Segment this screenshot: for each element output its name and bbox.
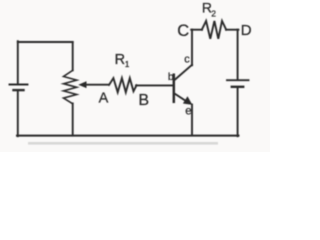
svg-text:b: b [168,71,174,83]
wire: collector vertical [191,30,193,66]
transistor Q1 emitter diagonal [175,94,187,102]
potentiometer zigzag body [64,70,77,104]
wire: R2 to D corner [226,29,238,31]
wire: left rail upper [17,41,19,83]
wire: emitter vertical [191,105,193,136]
wire: left rail lower [17,91,19,136]
svg-text:A: A [99,91,109,107]
wire: collector to R2 [191,29,202,31]
wire: left loop top [18,41,73,43]
wire: right rail upper [237,30,239,80]
battery B2 long plate [227,79,249,81]
resistor R1 zigzag [109,78,137,92]
svg-text:2: 2 [211,8,216,18]
svg-text:1: 1 [125,60,130,69]
svg-text:D: D [241,22,252,39]
wire: right rail lower [237,88,239,137]
potentiometer wiper arrowhead [78,81,86,88]
svg-text:C: C [177,22,189,40]
resistor R2 zigzag [202,21,226,39]
svg-text:c: c [184,54,190,66]
battery B1 long plate [10,84,28,86]
wire: bottom rail [17,135,239,137]
svg-text:R: R [115,52,125,68]
wire: base lead [136,84,173,86]
transistor Q1 emitter arrowhead [183,96,193,105]
wire: wiper horizontal lead [85,84,109,86]
wire: potentiometer bottom lead [72,103,74,135]
battery B1 short plate [14,89,24,91]
transistor Q1 base bar [173,75,176,102]
transistor Q1 collector diagonal [175,65,193,80]
svg-text:e: e [185,105,191,117]
wire: potentiometer top lead [72,42,74,70]
battery B2 short plate [232,86,243,88]
scan shadow under bottom rail [28,142,218,145]
svg-text:B: B [138,92,149,109]
